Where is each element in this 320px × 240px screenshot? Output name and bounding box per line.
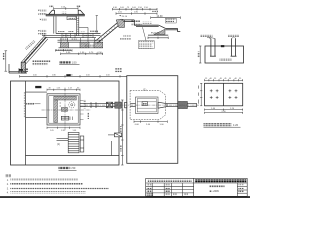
bolt top dim line (205, 79, 243, 81)
svg-text:2.00: 2.00 (86, 75, 90, 77)
14.30 dim (151, 17, 181, 19)
svg-text:1.13: 1.13 (68, 88, 72, 90)
landing label (80, 32, 85, 34)
black marker inside plan top (35, 86, 41, 88)
small marks inside block (60, 103, 73, 120)
anchor block dim text rotated (197, 52, 199, 58)
svg-text:4.: 4. (7, 193, 9, 195)
bolt left dim line (198, 83, 202, 106)
access ladder in tower (77, 16, 79, 36)
note box leader (143, 27, 147, 40)
right vertical dim line of plan (121, 100, 123, 165)
svg-text:1.80: 1.80 (52, 75, 56, 77)
drain pipes pair 1 (210, 39, 216, 57)
outside top-left labels (115, 68, 122, 73)
right hoist pedestal (78, 10, 84, 14)
svg-text:1.50: 1.50 (144, 7, 149, 9)
right wall tick details (80, 101, 84, 120)
pump unit view outer rectangle (127, 76, 178, 164)
gate groove ticks in house band (62, 33, 93, 37)
boxed pipe note (3 lines) (138, 41, 154, 49)
dim texts above pipe (113, 7, 149, 13)
title right column divider (236, 183, 238, 196)
pipe labels (201, 34, 240, 36)
gate platform slab (46, 14, 85, 16)
svg-text:2.: 2. (7, 184, 9, 186)
boxed road label (165, 18, 176, 23)
central box under slab (67, 16, 76, 19)
section arrow on dim line (66, 74, 70, 76)
plan view outer rectangle (11, 81, 120, 165)
drawing number (210, 190, 220, 193)
svg-text:1:50: 1:50 (70, 166, 76, 170)
drain ditch label + leader (26, 103, 40, 105)
svg-text:2.00: 2.00 (33, 75, 37, 77)
discharge cone (158, 102, 167, 108)
svg-text:1.00: 1.00 (132, 7, 137, 9)
elevation right small (152, 11, 158, 13)
bolt top dim micro texts (205, 78, 242, 80)
svg-text:1.13: 1.13 (57, 88, 61, 90)
tower left wall (54, 16, 56, 33)
title right column rows (237, 187, 247, 194)
lower dim tiers under pump house (56, 49, 103, 55)
section title A-A (59, 61, 79, 65)
svg-text:.40: .40 (234, 78, 237, 80)
pump house base slab line (58, 39, 104, 41)
svg-text:.45: .45 (224, 78, 227, 80)
pump house slab lines (42, 33, 103, 47)
svg-text:(1): (1) (57, 143, 60, 146)
plan lower wall line (26, 155, 120, 157)
discharge pipe in plan (80, 102, 119, 108)
slab top micro texts (58, 31, 98, 33)
svg-text:.55: .55 (214, 78, 217, 80)
title table cell texts (147, 184, 188, 196)
pump block bottom dims (47, 127, 80, 129)
pump unit bottom dim (134, 121, 167, 123)
note text: concrete outlet (32, 60, 50, 65)
wall stub near right (110, 141, 112, 156)
title header left (148, 179, 192, 182)
pump centerline (85, 104, 199, 106)
svg-text:.25: .25 (205, 78, 208, 80)
outlet basin end wall (9, 62, 27, 73)
walkway lines to ladder (57, 139, 69, 141)
drawing name center (209, 185, 225, 188)
title right column texts (238, 184, 244, 193)
outside pipe stub (187, 103, 196, 107)
pump dashed circle (69, 102, 75, 108)
left chute band (22, 35, 48, 65)
svg-text:25.10: 25.10 (122, 16, 128, 18)
svg-text:1.50: 1.50 (138, 7, 143, 9)
chute slope dim text (rotated) (25, 40, 35, 50)
wall penetration block hatched (178, 102, 188, 109)
bolt layout rectangle (205, 83, 243, 106)
svg-text:.55: .55 (228, 78, 231, 80)
wall penetration hatched (115, 102, 122, 108)
title block frame (146, 178, 248, 196)
right channel stepped profile (122, 20, 181, 35)
svg-text:22.50: 22.50 (153, 32, 160, 35)
footing edge verticals (61, 38, 95, 43)
svg-text:14.30: 14.30 (157, 15, 164, 18)
rotated dim texts on right dim line (120, 126, 122, 133)
inner sump hatched (61, 108, 67, 112)
svg-text:1:50: 1:50 (72, 62, 77, 65)
inlet connector on left wall (125, 102, 136, 107)
plan top dim texts (33, 75, 110, 77)
note line 1 (7, 180, 9, 182)
anchor block left dim (199, 46, 201, 63)
svg-text:3.: 3. (7, 188, 9, 190)
headwall block at pipe top (116, 19, 124, 27)
elevation 25.10 (119, 15, 128, 18)
svg-text:2.00: 2.00 (106, 75, 110, 77)
plan title (59, 166, 77, 170)
drain ditch dashed line (23, 92, 25, 117)
note line 2 (7, 184, 9, 186)
basin left dim line (5, 51, 8, 71)
svg-text:.30: .30 (77, 88, 80, 90)
svg-text:.25: .25 (239, 78, 242, 80)
svg-text:1.20: 1.20 (61, 130, 65, 132)
note line 4 (7, 193, 9, 195)
svg-text:(1): (1) (143, 88, 146, 92)
structure inner tiny texts (56, 39, 94, 51)
embankment hatched wedge (154, 29, 165, 34)
plan inner wall vertical (25, 81, 27, 165)
drain pipe anchor block (top right detail) (205, 46, 244, 63)
svg-text:-2009: -2009 (213, 190, 220, 193)
svg-text:1.05: 1.05 (50, 130, 54, 132)
motor label box (142, 102, 147, 106)
bolt layout label (204, 123, 241, 127)
access ladder (68, 132, 84, 152)
note line 3 (7, 188, 9, 190)
svg-text:1.80: 1.80 (134, 12, 139, 14)
pipe leader lines (207, 37, 236, 38)
svg-text:.75: .75 (126, 7, 130, 9)
elevation 22.50 (151, 32, 160, 35)
svg-text:.30: .30 (48, 88, 51, 90)
pump block top dims (47, 89, 80, 91)
channel slope labels (131, 20, 152, 25)
rising discharge pipe band (96, 19, 124, 43)
discharge pipe to wall (167, 104, 178, 107)
drain room walls (26, 92, 48, 117)
svg-text:0.30: 0.30 (113, 7, 118, 9)
pump unit dashed envelope (130, 90, 165, 119)
pipe hatch ticks (99, 22, 122, 41)
svg-text:1:20: 1:20 (233, 123, 239, 127)
svg-text:2.05: 2.05 (118, 12, 123, 14)
centerlines of pump block (42, 88, 91, 132)
dim text 1.00 (61, 7, 66, 9)
label C25 inside block (220, 59, 232, 61)
svg-text:.45: .45 (219, 78, 222, 80)
pump block left hatched band (54, 100, 58, 123)
black inlet mark on block top (221, 45, 224, 47)
lower drain penetration (108, 133, 122, 137)
drain pipes pair 2 (231, 39, 237, 57)
title left table grid (146, 183, 194, 196)
hoist knob left (50, 6, 54, 8)
section A marker left (19, 68, 28, 73)
svg-text:1.05: 1.05 (73, 130, 77, 132)
left hoist pedestal (49, 10, 55, 14)
section view: top dimension line over gate platform (54, 7, 78, 10)
landing platform (79, 28, 88, 34)
chute hatch ticks (23, 37, 46, 64)
bolt plus marks (210, 89, 238, 99)
pump block top hatched band (54, 96, 77, 100)
sheet bottom border (0, 196, 250, 198)
svg-text:1.: 1. (7, 180, 9, 182)
elevation labels at chute top (38, 30, 47, 35)
lower dim line right channel (148, 37, 168, 39)
plan right-wall rotated labels (84, 100, 86, 109)
bolt bottom dims (205, 109, 243, 114)
small elevation text on slab (62, 12, 67, 14)
title header right (bold project name) (195, 179, 247, 182)
svg-text:1.00: 1.00 (120, 7, 125, 9)
notes heading (5, 175, 11, 178)
inner pump base (61, 116, 69, 120)
motor body (136, 97, 159, 114)
hoist knob right (77, 6, 81, 8)
pump house footing blocks (hatched) (61, 42, 103, 48)
plan top dimension line (20, 75, 127, 77)
faint dim text row under channel (120, 38, 131, 40)
tower height dim line (96, 16, 98, 33)
upper dim band over pipe (113, 8, 158, 15)
basin dim text rotated (3, 53, 5, 60)
elevation labels left of platform (38, 9, 47, 20)
pump block outer walls (47, 94, 80, 125)
svg-text:.40: .40 (209, 78, 212, 80)
